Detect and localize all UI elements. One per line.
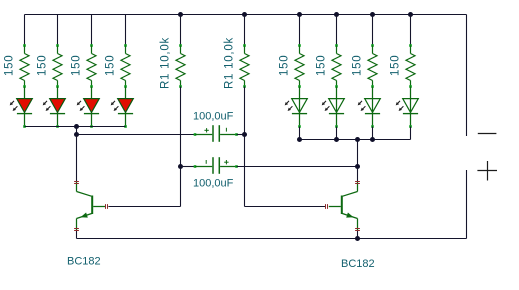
resistor 150 (right branch 3) xyxy=(352,44,377,88)
node: right rail junction a xyxy=(297,137,302,142)
svg-text:R1 10,0k: R1 10,0k xyxy=(160,37,172,89)
LED green D6 (right branch 2) xyxy=(322,87,345,128)
node: right branch 4 top junction xyxy=(408,12,413,17)
node: C2 left node xyxy=(178,164,183,169)
LED red D1 (left branch 1) xyxy=(10,87,33,128)
node: cathode rail junction xyxy=(74,124,79,129)
wire: left branch 4 drop from top rail xyxy=(125,15,127,46)
resistor 150 (left branch 2) xyxy=(37,44,62,88)
wire: right branch 4 LED to cathode rail xyxy=(410,127,412,140)
wire: right branch 3 drop from top rail xyxy=(372,15,374,46)
battery terminal plus mark xyxy=(477,161,497,181)
svg-text:150: 150 xyxy=(105,55,117,76)
wire: R1a down to Q1 base corner xyxy=(108,87,180,207)
wire: Q1 collector riser xyxy=(76,135,78,182)
wire: left LED cathode rail xyxy=(25,126,126,128)
transistor Q1 BC182 (left NPN) xyxy=(67,181,108,268)
LED green D8 (right branch 4) xyxy=(396,87,419,128)
wire: battery negative return xyxy=(466,170,468,239)
wire: right branch 3 LED to cathode rail xyxy=(372,127,374,140)
node: right rail junction b xyxy=(334,137,339,142)
LED red D2 (left branch 2) xyxy=(43,87,66,128)
svg-text:150: 150 xyxy=(279,55,291,76)
svg-text:150: 150 xyxy=(390,55,402,76)
node: right branch 1 top junction xyxy=(297,12,302,17)
LED green D5 (right branch 1) xyxy=(285,87,308,128)
capacitor C1 100,0uF (top coupling) xyxy=(77,111,245,142)
wire: right branch 1 drop from top rail xyxy=(299,15,301,46)
node: C1 left node xyxy=(74,132,79,137)
svg-text:100,0uF: 100,0uF xyxy=(193,111,234,123)
wire: right LED cathode rail xyxy=(300,139,411,141)
svg-text:BC182: BC182 xyxy=(341,258,375,270)
svg-text:150: 150 xyxy=(352,55,364,76)
resistor 150 (right branch 1) xyxy=(279,44,304,88)
LED red D3 (left branch 3) xyxy=(77,87,100,128)
wire: R1b branch drop xyxy=(244,15,246,46)
node: bottom rail / Q2 emitter junction xyxy=(355,236,360,241)
node: right rail junction c (to Q2) xyxy=(355,137,360,142)
wire: junction drop xyxy=(76,127,78,135)
resistor R1 10,0k (right) xyxy=(224,37,249,89)
wire: R1a branch drop xyxy=(180,15,182,46)
svg-text:100,0uF: 100,0uF xyxy=(193,177,234,189)
node: C1 right node xyxy=(242,132,247,137)
wire: battery positive feed (right edge) xyxy=(466,15,468,137)
resistor 150 (left branch 4) xyxy=(105,44,130,88)
LED green D7 (right branch 3) xyxy=(358,87,381,128)
node: R1a top junction xyxy=(178,12,183,17)
svg-text:150: 150 xyxy=(71,55,83,76)
wire: right branch 1 LED to cathode rail xyxy=(299,127,301,140)
resistor 150 (right branch 4) xyxy=(390,44,415,88)
svg-text:150: 150 xyxy=(316,55,328,76)
wire: right branch 2 LED to cathode rail xyxy=(336,127,338,140)
wire: Q2 collector riser xyxy=(357,140,359,167)
wire: left branch 3 drop from top rail xyxy=(91,15,93,46)
node: R1b top junction xyxy=(242,12,247,17)
node: right branch 2 top junction xyxy=(334,12,339,17)
node: right rail junction d xyxy=(370,137,375,142)
resistor 150 (left branch 1) xyxy=(4,44,29,88)
node: Q2 collector / C2 junction xyxy=(355,164,360,169)
wire: right branch 4 drop from top rail xyxy=(410,15,412,46)
resistor 150 (right branch 2) xyxy=(316,44,341,88)
wire: Q2 collector segment xyxy=(357,167,359,182)
wire: bottom rail xyxy=(77,238,467,240)
wire: R1b down to Q2 base corner xyxy=(245,87,326,207)
wire: top supply rail xyxy=(25,14,467,16)
svg-text:BC182: BC182 xyxy=(67,256,101,268)
wire: left branch 1 drop from top rail xyxy=(24,15,26,46)
wire: left branch 2 drop from top rail xyxy=(57,15,59,46)
LED red D4 (left branch 4) xyxy=(111,87,134,128)
resistor 150 (left branch 3) xyxy=(71,44,96,88)
svg-text:150: 150 xyxy=(37,55,49,76)
node: right branch 3 top junction xyxy=(370,12,375,17)
resistor R1 10,0k (left) xyxy=(160,37,185,89)
wire: right branch 2 drop from top rail xyxy=(336,15,338,46)
battery terminal minus mark xyxy=(478,133,497,135)
capacitor C2 100,0uF (bottom coupling) xyxy=(181,157,358,189)
svg-text:150: 150 xyxy=(4,55,16,76)
transistor Q2 BC182 (right NPN) xyxy=(326,181,375,270)
svg-text:R1 10,0k: R1 10,0k xyxy=(224,37,236,89)
